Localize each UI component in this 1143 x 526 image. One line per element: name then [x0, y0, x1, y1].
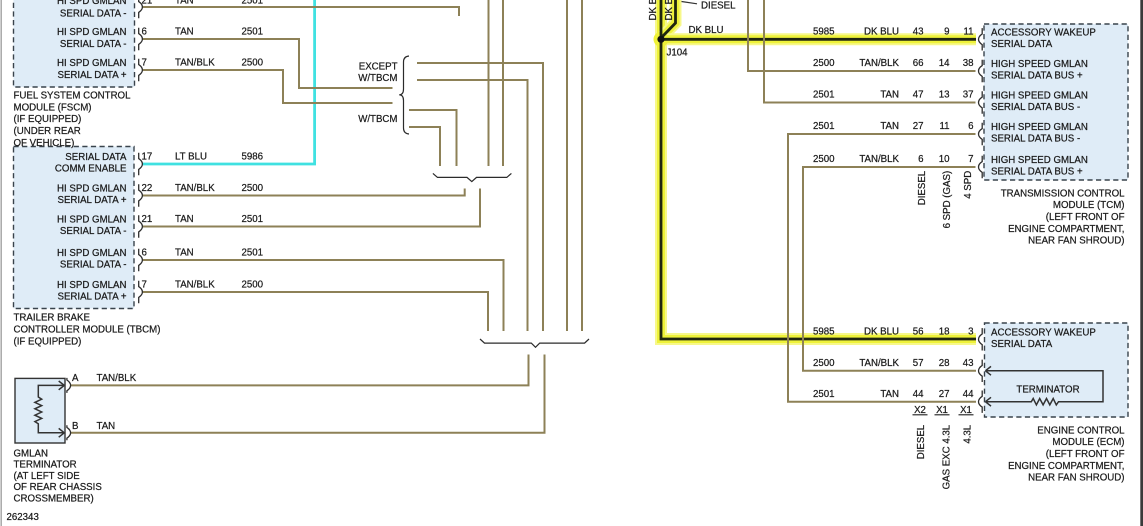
svg-text:HIGH SPEED GMLAN: HIGH SPEED GMLAN	[991, 91, 1088, 102]
svg-text:5986: 5986	[242, 151, 264, 162]
svg-text:HI SPD GMLAN: HI SPD GMLAN	[57, 0, 126, 7]
svg-text:LT BLU: LT BLU	[175, 151, 207, 162]
svg-text:HI SPD GMLAN: HI SPD GMLAN	[57, 58, 126, 69]
svg-text:6: 6	[918, 154, 923, 165]
svg-text:MODULE (FSCM): MODULE (FSCM)	[14, 102, 92, 113]
svg-text:TRAILER BRAKE: TRAILER BRAKE	[14, 312, 91, 323]
svg-text:SERIAL DATA: SERIAL DATA	[65, 152, 127, 163]
svg-text:HI SPD GMLAN: HI SPD GMLAN	[57, 280, 126, 291]
svg-text:7: 7	[142, 279, 147, 290]
svg-text:21: 21	[142, 214, 153, 225]
svg-text:HIGH SPEED GMLAN: HIGH SPEED GMLAN	[991, 59, 1088, 70]
svg-text:ENGINE CONTROL: ENGINE CONTROL	[1037, 425, 1125, 436]
svg-text:44: 44	[913, 389, 924, 400]
svg-text:ENGINE COMPARTMENT,: ENGINE COMPARTMENT,	[1008, 461, 1124, 472]
svg-text:7: 7	[968, 154, 973, 165]
svg-text:11: 11	[963, 26, 973, 37]
svg-text:TAN/BLK: TAN/BLK	[859, 358, 899, 369]
svg-text:OF REAR CHASSIS: OF REAR CHASSIS	[14, 482, 103, 493]
svg-text:DK BLU: DK BLU	[689, 25, 724, 36]
svg-text:TAN: TAN	[175, 26, 194, 37]
svg-text:6 SPD (GAS): 6 SPD (GAS)	[942, 171, 953, 229]
svg-text:47: 47	[913, 90, 924, 101]
svg-text:DK BLU: DK BLU	[664, 0, 675, 21]
svg-text:COMM ENABLE: COMM ENABLE	[55, 164, 127, 175]
svg-text:66: 66	[913, 58, 924, 69]
svg-text:6: 6	[142, 247, 147, 258]
svg-text:4.3L: 4.3L	[963, 424, 974, 443]
svg-text:ACCESSORY WAKEUP: ACCESSORY WAKEUP	[991, 28, 1096, 39]
svg-text:3: 3	[968, 326, 973, 337]
svg-text:2500: 2500	[242, 57, 264, 68]
svg-text:TERMINATOR: TERMINATOR	[14, 460, 77, 471]
svg-text:TAN: TAN	[880, 389, 899, 400]
svg-text:X1: X1	[936, 405, 948, 416]
svg-text:CROSSMEMBER): CROSSMEMBER)	[14, 493, 94, 504]
svg-text:17: 17	[142, 151, 153, 162]
svg-text:2501: 2501	[813, 90, 835, 101]
svg-text:11: 11	[939, 121, 949, 132]
svg-text:TAN/BLK: TAN/BLK	[859, 58, 899, 69]
svg-text:CONTROLLER MODULE (TBCM): CONTROLLER MODULE (TBCM)	[14, 324, 161, 335]
svg-text:DK BLU: DK BLU	[864, 326, 899, 337]
svg-text:NEAR FAN SHROUD): NEAR FAN SHROUD)	[1028, 473, 1124, 484]
svg-text:J104: J104	[667, 48, 689, 59]
svg-text:2501: 2501	[242, 247, 264, 258]
svg-text:TAN: TAN	[175, 0, 194, 7]
svg-text:W/TBCM: W/TBCM	[358, 114, 397, 125]
svg-text:FUEL SYSTEM CONTROL: FUEL SYSTEM CONTROL	[14, 91, 132, 102]
svg-text:TRANSMISSION CONTROL: TRANSMISSION CONTROL	[1001, 188, 1125, 199]
svg-text:2501: 2501	[813, 389, 835, 400]
svg-text:B: B	[72, 421, 78, 432]
svg-text:TERMINATOR: TERMINATOR	[1016, 385, 1079, 396]
svg-text:SERIAL DATA BUS -: SERIAL DATA BUS -	[991, 134, 1080, 145]
svg-text:18: 18	[939, 326, 950, 337]
svg-text:HI SPD GMLAN: HI SPD GMLAN	[57, 27, 126, 38]
svg-text:37: 37	[963, 90, 974, 101]
svg-text:TAN: TAN	[880, 90, 899, 101]
svg-text:262343: 262343	[7, 512, 39, 523]
svg-text:SERIAL DATA -: SERIAL DATA -	[60, 260, 127, 271]
svg-text:SERIAL DATA -: SERIAL DATA -	[60, 8, 127, 19]
svg-text:14: 14	[939, 58, 950, 69]
svg-text:SERIAL DATA: SERIAL DATA	[991, 39, 1053, 50]
svg-text:57: 57	[913, 358, 924, 369]
svg-text:2500: 2500	[813, 58, 835, 69]
svg-text:(IF EQUIPPED): (IF EQUIPPED)	[14, 336, 82, 347]
svg-text:DIESEL: DIESEL	[701, 0, 736, 11]
svg-text:DIESEL: DIESEL	[916, 424, 927, 459]
svg-text:(UNDER REAR: (UNDER REAR	[14, 126, 81, 137]
svg-text:SERIAL DATA: SERIAL DATA	[991, 339, 1053, 350]
svg-text:44: 44	[963, 389, 974, 400]
svg-text:SERIAL DATA +: SERIAL DATA +	[57, 70, 126, 81]
svg-text:TAN: TAN	[175, 247, 194, 258]
svg-text:W/TBCM: W/TBCM	[358, 73, 397, 84]
svg-text:10: 10	[939, 154, 950, 165]
svg-text:21: 21	[142, 0, 153, 7]
svg-text:2500: 2500	[813, 358, 835, 369]
svg-text:SERIAL DATA +: SERIAL DATA +	[57, 195, 126, 206]
svg-text:TAN: TAN	[175, 214, 194, 225]
svg-text:TAN: TAN	[97, 421, 116, 432]
svg-text:SERIAL DATA BUS -: SERIAL DATA BUS -	[991, 102, 1080, 113]
svg-text:TAN: TAN	[880, 121, 899, 132]
svg-text:SERIAL DATA BUS +: SERIAL DATA BUS +	[991, 167, 1083, 178]
svg-text:HIGH SPEED GMLAN: HIGH SPEED GMLAN	[991, 122, 1088, 133]
svg-text:ENGINE COMPARTMENT,: ENGINE COMPARTMENT,	[1008, 224, 1124, 235]
svg-text:TAN/BLK: TAN/BLK	[859, 154, 899, 165]
svg-text:X1: X1	[960, 405, 972, 416]
svg-text:MODULE (ECM): MODULE (ECM)	[1052, 437, 1124, 448]
svg-text:NEAR FAN SHROUD): NEAR FAN SHROUD)	[1028, 236, 1124, 247]
svg-text:43: 43	[913, 26, 924, 37]
svg-text:SERIAL DATA -: SERIAL DATA -	[60, 39, 127, 50]
svg-text:ACCESSORY WAKEUP: ACCESSORY WAKEUP	[991, 327, 1096, 338]
svg-text:(LEFT FRONT OF: (LEFT FRONT OF	[1046, 449, 1125, 460]
svg-text:HI SPD GMLAN: HI SPD GMLAN	[57, 214, 126, 225]
svg-text:4 SPD: 4 SPD	[963, 171, 974, 199]
svg-text:6: 6	[968, 121, 973, 132]
svg-text:13: 13	[939, 90, 950, 101]
svg-text:6: 6	[142, 26, 147, 37]
svg-text:HI SPD GMLAN: HI SPD GMLAN	[57, 248, 126, 259]
svg-text:DK BLU: DK BLU	[864, 26, 899, 37]
svg-text:TAN/BLK: TAN/BLK	[97, 373, 137, 384]
svg-text:GMLAN: GMLAN	[14, 448, 48, 459]
svg-text:TAN/BLK: TAN/BLK	[175, 57, 215, 68]
svg-text:MODULE (TCM): MODULE (TCM)	[1053, 200, 1125, 211]
svg-text:2500: 2500	[242, 279, 264, 290]
svg-text:27: 27	[939, 389, 950, 400]
svg-text:38: 38	[963, 58, 974, 69]
svg-text:DIESEL: DIESEL	[917, 170, 928, 205]
svg-text:22: 22	[142, 183, 153, 194]
svg-text:2501: 2501	[242, 214, 264, 225]
svg-text:HI SPD GMLAN: HI SPD GMLAN	[57, 183, 126, 194]
svg-text:9: 9	[944, 26, 949, 37]
svg-text:2500: 2500	[242, 183, 264, 194]
svg-text:5985: 5985	[813, 326, 835, 337]
svg-text:2500: 2500	[813, 154, 835, 165]
svg-text:2501: 2501	[242, 26, 264, 37]
svg-text:GAS EXC 4.3L: GAS EXC 4.3L	[942, 424, 953, 489]
svg-text:2501: 2501	[813, 121, 835, 132]
svg-text:SERIAL DATA BUS +: SERIAL DATA BUS +	[991, 71, 1083, 82]
svg-text:DK BLU: DK BLU	[648, 0, 659, 21]
svg-text:28: 28	[939, 358, 950, 369]
svg-text:OF VEHICLE): OF VEHICLE)	[14, 138, 75, 149]
svg-text:5985: 5985	[813, 26, 835, 37]
svg-text:A: A	[72, 373, 79, 384]
svg-text:HIGH SPEED GMLAN: HIGH SPEED GMLAN	[991, 155, 1088, 166]
svg-text:27: 27	[913, 121, 924, 132]
svg-text:SERIAL DATA +: SERIAL DATA +	[57, 292, 126, 303]
svg-text:X2: X2	[914, 405, 926, 416]
svg-text:SERIAL DATA -: SERIAL DATA -	[60, 226, 127, 237]
svg-text:2501: 2501	[242, 0, 264, 7]
svg-text:EXCEPT: EXCEPT	[359, 61, 398, 72]
svg-text:(AT LEFT SIDE: (AT LEFT SIDE	[14, 471, 81, 482]
svg-text:43: 43	[963, 358, 974, 369]
svg-text:TAN/BLK: TAN/BLK	[175, 279, 215, 290]
svg-text:7: 7	[142, 57, 147, 68]
svg-text:56: 56	[913, 326, 924, 337]
svg-text:(IF EQUIPPED): (IF EQUIPPED)	[14, 114, 82, 125]
svg-text:(LEFT FRONT OF: (LEFT FRONT OF	[1046, 212, 1125, 223]
svg-text:TAN/BLK: TAN/BLK	[175, 183, 215, 194]
